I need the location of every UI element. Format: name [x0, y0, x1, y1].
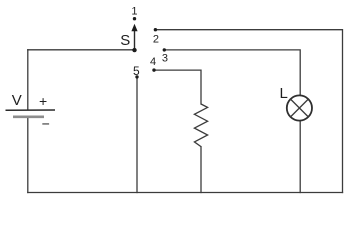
svg-text:5: 5 — [133, 64, 140, 78]
lamp X diagonal 1 — [290, 99, 308, 117]
wire bottom horizontal — [28, 192, 343, 194]
switch pivot node — [132, 48, 136, 52]
switch S arrowhead — [131, 24, 137, 31]
wire lamp bottom to bottom rail — [299, 121, 301, 193]
wire contact 5 down to bottom rail — [136, 77, 138, 193]
lamp X diagonal 2 — [290, 99, 308, 117]
lamp L circle — [287, 95, 312, 120]
svg-text:+: + — [39, 93, 47, 109]
svg-text:L: L — [280, 85, 288, 102]
node contact 1 — [133, 17, 136, 20]
svg-text:3: 3 — [162, 52, 168, 64]
battery V bottom plate (short, thick, negative) — [13, 115, 44, 118]
wire contact 2 to top-right and down right side — [155, 30, 342, 193]
svg-text:2: 2 — [153, 33, 159, 45]
node contact 3 — [163, 48, 166, 51]
svg-text:V: V — [12, 92, 22, 109]
node contact 5 — [135, 75, 138, 78]
switch S arm shaft — [134, 29, 136, 51]
wire top-left horizontal from battery to switch pivot — [28, 49, 135, 51]
battery V top plate (long, positive) — [6, 109, 56, 111]
resistor zigzag — [194, 104, 207, 147]
node contact 2 — [154, 28, 157, 31]
svg-text:1: 1 — [131, 5, 137, 17]
wire contact 3 to lamp top — [164, 50, 300, 95]
wire left vertical battery bottom lead — [27, 117, 29, 192]
node contact 4 — [152, 68, 155, 71]
wire resistor bottom to bottom rail — [200, 147, 202, 193]
svg-text:4: 4 — [150, 56, 156, 68]
wire left vertical battery top lead — [27, 50, 29, 110]
wire contact 4 to resistor top — [154, 70, 201, 104]
svg-text:S: S — [120, 32, 130, 49]
svg-text:−: − — [42, 116, 50, 132]
